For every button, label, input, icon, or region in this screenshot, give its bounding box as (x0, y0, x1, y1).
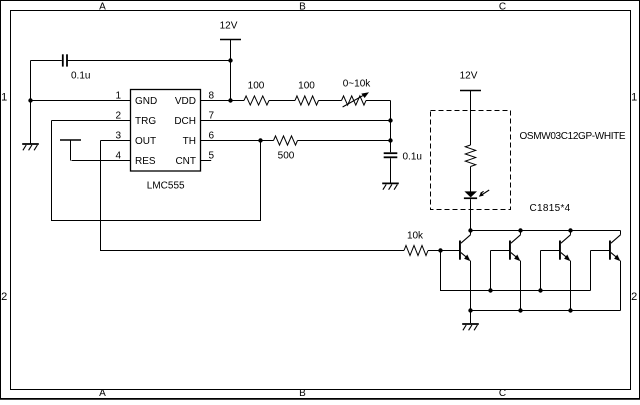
svg-text:DCH: DCH (174, 116, 196, 127)
svg-text:8: 8 (209, 90, 215, 101)
svg-text:2: 2 (1, 291, 7, 303)
svg-text:RES: RES (135, 156, 156, 167)
svg-text:2: 2 (115, 110, 121, 121)
svg-text:4: 4 (115, 150, 121, 161)
svg-text:TRG: TRG (135, 116, 156, 127)
svg-text:1: 1 (631, 92, 637, 104)
svg-text:1: 1 (1, 92, 7, 104)
svg-text:A: A (99, 388, 106, 399)
svg-text:CNT: CNT (175, 156, 196, 167)
svg-text:A: A (99, 1, 106, 12)
svg-text:C: C (499, 1, 506, 12)
svg-text:12V: 12V (460, 71, 478, 82)
svg-text:B: B (299, 388, 306, 399)
svg-text:6: 6 (209, 130, 215, 141)
svg-text:100: 100 (248, 81, 265, 92)
svg-text:10k: 10k (407, 231, 424, 242)
svg-text:OUT: OUT (135, 136, 156, 147)
svg-text:OSMW03C12GP-WHITE: OSMW03C12GP-WHITE (520, 131, 626, 142)
svg-text:1: 1 (115, 90, 121, 101)
svg-text:5: 5 (209, 150, 215, 161)
svg-text:B: B (299, 1, 306, 12)
svg-text:0~10k: 0~10k (343, 79, 372, 90)
svg-text:2: 2 (631, 291, 637, 303)
svg-text:LMC555: LMC555 (147, 181, 185, 192)
svg-text:500: 500 (278, 151, 295, 162)
svg-text:0.1u: 0.1u (71, 71, 90, 82)
svg-text:0.1u: 0.1u (403, 152, 422, 163)
svg-text:12V: 12V (220, 21, 238, 32)
svg-text:C1815*4: C1815*4 (530, 203, 571, 214)
svg-text:GND: GND (135, 96, 157, 107)
svg-text:3: 3 (115, 130, 121, 141)
svg-text:7: 7 (209, 110, 215, 121)
svg-text:TH: TH (183, 136, 196, 147)
svg-text:C: C (499, 388, 506, 399)
svg-text:100: 100 (298, 81, 315, 92)
svg-text:VDD: VDD (175, 96, 196, 107)
